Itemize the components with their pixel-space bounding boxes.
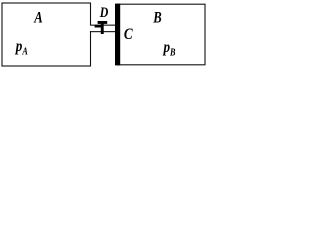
stopcock seat blob on upper tube wall <box>95 25 101 28</box>
vessel A (left chamber) <box>2 3 91 66</box>
stopcock D cap <box>98 21 108 24</box>
tube upper wall <box>91 25 115 26</box>
tube lower wall <box>91 31 115 32</box>
svg-text:C: C <box>124 26 133 43</box>
svg-text:D: D <box>99 4 109 20</box>
stopcock D stem <box>101 23 104 34</box>
thick piston wall C of vessel B <box>115 4 120 66</box>
background <box>0 0 212 69</box>
svg-text:A: A <box>33 9 42 26</box>
svg-text:B: B <box>152 9 161 26</box>
vessel B (right chamber) <box>118 4 206 65</box>
opening in vessel A right wall <box>90 26 93 31</box>
